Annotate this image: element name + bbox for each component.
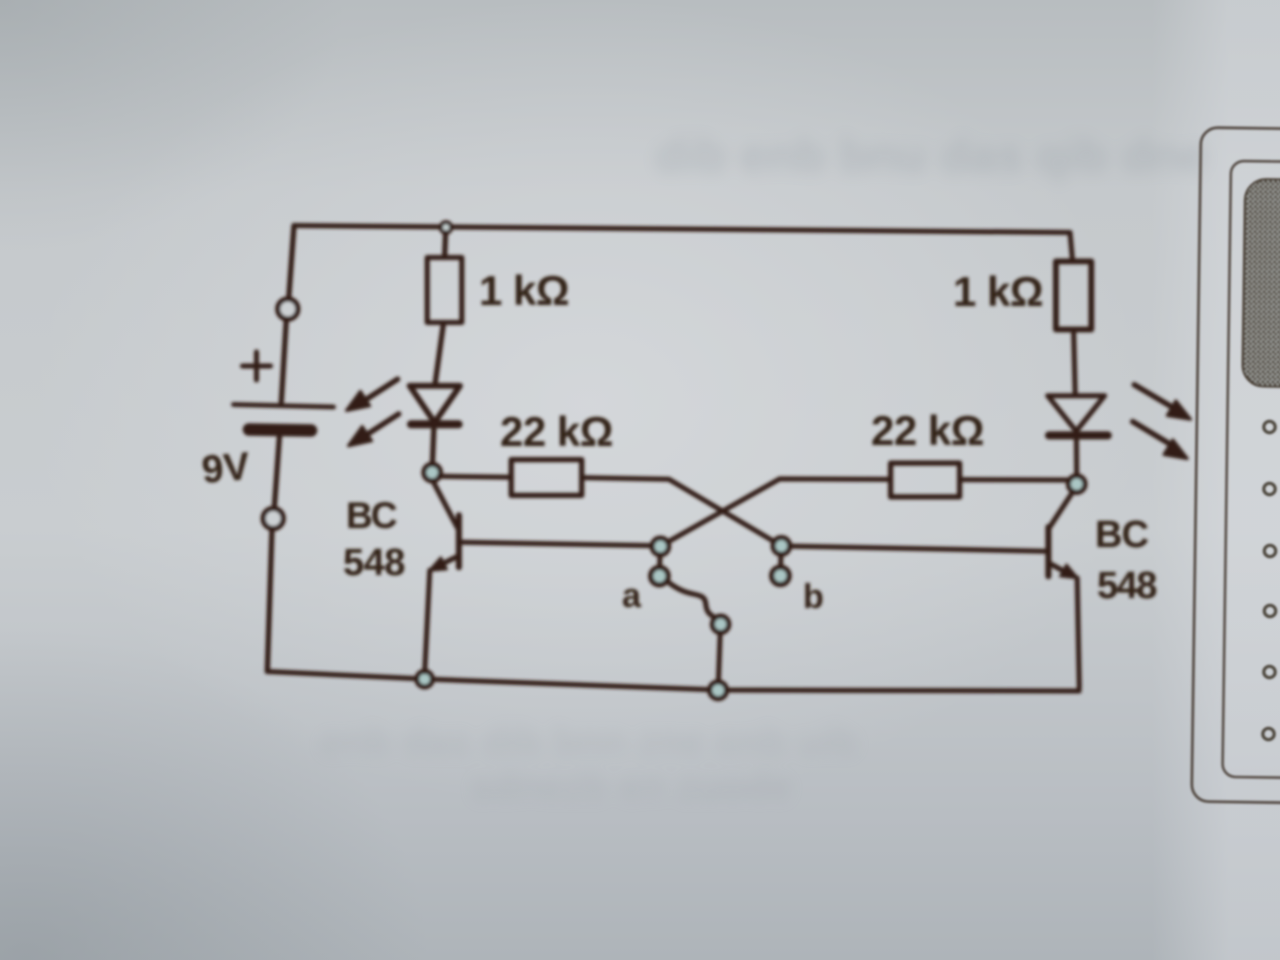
label 1 kOhm right [953, 268, 1043, 315]
node top rail junction [441, 222, 451, 232]
wire node to R3 22k left [439, 476, 511, 477]
wire LED1 to collector node [432, 428, 434, 465]
breadboard hole 4 [1264, 605, 1275, 616]
wire node right collector to R4 22k right [960, 477, 1077, 482]
LED D2 triangle [1048, 396, 1105, 432]
wire terminal to plate [281, 320, 286, 403]
svg-text:BC: BC [1095, 514, 1148, 556]
transistor Q1 base wire [462, 542, 652, 545]
wire bottom ground rail [267, 672, 1079, 692]
label 22 kOhm right [871, 407, 984, 454]
transistor Q1 emitter arrow [430, 558, 447, 571]
svg-text:548: 548 [1097, 565, 1156, 607]
wire top rail right drop [1070, 233, 1073, 262]
resistor 1k left body [427, 258, 462, 323]
node b link bar [778, 554, 783, 568]
transistor Q2 emitter [1050, 564, 1070, 575]
battery plate short thick [249, 430, 311, 431]
wire LED2 to collector node [1074, 439, 1079, 476]
wire plate to bottom terminal [274, 436, 279, 509]
breadboard hole 2 [1264, 483, 1275, 494]
wire R1 to LED1 [435, 323, 444, 385]
node a lower terminal [651, 567, 668, 584]
jumper wire from node a to ground [668, 582, 720, 623]
wire battery negative drop [267, 529, 272, 672]
breadboard hole 1 [1264, 421, 1275, 432]
battery plate long [234, 405, 334, 408]
LED D2 light arrow 2 [1133, 422, 1188, 459]
LED D1 cathode bar [411, 420, 459, 428]
transistor Q2 emitter arrow [1060, 565, 1077, 578]
label 1 kOhm left [479, 267, 569, 314]
resistor 22k left body [511, 460, 582, 496]
label BC left [346, 495, 397, 536]
LED D2 light arrow 1 [1134, 385, 1190, 420]
transistor Q1 collector [433, 481, 458, 528]
label a [622, 577, 642, 615]
svg-text:a: a [622, 577, 642, 615]
resistor 22k right body [891, 463, 960, 497]
wire node to R1 [445, 233, 446, 258]
transistor Q2 base wire [790, 546, 1046, 551]
svg-text:b: b [803, 578, 824, 616]
svg-text:1 kΩ: 1 kΩ [479, 267, 569, 314]
transistor Q1 emitter [437, 557, 457, 567]
wire R3 to node b crossing diagonal [582, 478, 782, 546]
label 9V [200, 445, 251, 492]
svg-text:1 kΩ: 1 kΩ [953, 268, 1043, 315]
wire R4 to node a crossing diagonal [660, 479, 890, 546]
svg-text:enb das dib bnn zne enb uib: enb das dib bnn zne enb uib [320, 720, 858, 764]
svg-text:sdnezb en zuode: sdnezb en zuode [470, 765, 792, 809]
breadboard outer frame [1192, 127, 1280, 803]
label BC right [1095, 514, 1148, 556]
transistor Q2 collector [1050, 486, 1077, 527]
node left collector junction [424, 464, 441, 481]
ghost bleed-through text top [655, 130, 1207, 183]
label b [803, 578, 824, 616]
wire R2 to LED2 [1074, 330, 1076, 395]
breadboard hatched band [1242, 179, 1280, 388]
LED D1 light arrow 2 [349, 414, 399, 446]
transistor Q1 base bar [456, 515, 462, 567]
breadboard photo fragment on right page edge [1192, 127, 1280, 803]
svg-text:22 kΩ: 22 kΩ [871, 407, 984, 454]
breadboard hole 6 [1263, 728, 1274, 739]
LED D1 light arrow 1 [347, 379, 398, 410]
node right collector junction [1068, 476, 1085, 493]
node jumper end [712, 616, 728, 632]
node a link bar [657, 555, 662, 569]
breadboard hole 5 [1264, 666, 1275, 677]
wire jumper end to rail [718, 633, 720, 683]
node ground rail left junction [417, 671, 433, 687]
transistor Q2 base bar [1045, 527, 1051, 576]
svg-text:22 kΩ: 22 kΩ [500, 408, 613, 455]
resistor 1k right body [1056, 261, 1091, 329]
wire battery positive drop [289, 226, 294, 299]
battery terminal top [278, 299, 298, 319]
svg-text:BC: BC [346, 495, 397, 536]
node b upper terminal [773, 538, 790, 555]
battery plus sign [243, 352, 271, 380]
label 548 right [1097, 565, 1156, 607]
breadboard hole 3 [1264, 545, 1275, 556]
svg-text:548: 548 [343, 542, 405, 584]
wire Q1 emitter to rail [425, 570, 430, 672]
LED D1 triangle [410, 386, 460, 423]
wire top supply rail [294, 226, 1070, 233]
node ground rail mid junction [710, 682, 727, 699]
label 548 left [343, 542, 405, 584]
ghost bleed-through text bottom [320, 720, 858, 809]
breadboard inner frame [1222, 161, 1280, 779]
label 22 kOhm left [500, 408, 613, 455]
LED D2 cathode bar [1049, 431, 1108, 439]
wire Q2 emitter to rail [1077, 578, 1079, 688]
node b lower terminal [772, 567, 789, 584]
svg-text:dib enb bnu das qib dne: dib enb bnu das qib dne [655, 130, 1207, 183]
svg-text:9V: 9V [200, 445, 251, 492]
node a upper terminal [652, 538, 669, 555]
battery terminal bottom [263, 509, 283, 529]
